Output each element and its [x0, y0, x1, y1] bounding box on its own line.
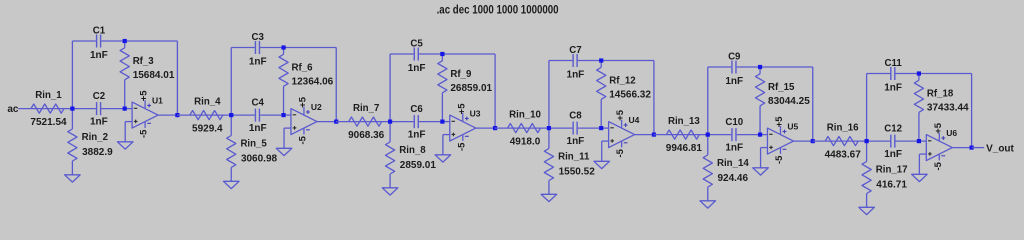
node B junction	[917, 139, 921, 143]
svg-text:Rin_11: Rin_11	[558, 152, 590, 163]
wire: output riser	[176, 41, 178, 115]
node B junction	[440, 120, 444, 124]
wire: node A to cap	[708, 134, 732, 136]
capacitor C9	[731, 61, 733, 74]
svg-text:1nF: 1nF	[90, 50, 108, 61]
resistor Rin_8 (body)	[385, 142, 394, 174]
node A junction	[229, 113, 233, 117]
opamp minus input mark	[610, 127, 614, 129]
resistor Rf_6 (body)	[279, 54, 288, 86]
wire: Rf top lead	[759, 67, 761, 74]
output junction	[493, 126, 497, 130]
V- mark	[624, 142, 628, 144]
ground under Rin_11	[541, 194, 557, 201]
ground at U1 plus input	[117, 142, 133, 149]
svg-text:ac: ac	[7, 104, 19, 115]
svg-text:+5: +5	[933, 122, 944, 134]
svg-text:+5: +5	[297, 96, 308, 108]
svg-text:Rin_10: Rin_10	[509, 110, 541, 121]
top feedback junction	[281, 45, 285, 49]
svg-text:V_out: V_out	[986, 144, 1014, 155]
opamp minus input mark	[134, 107, 138, 109]
V+ power pin stub	[303, 107, 305, 115]
V- power pin stub	[938, 154, 940, 160]
svg-text:1nF: 1nF	[249, 56, 267, 67]
wire: input to node A	[177, 114, 231, 116]
svg-text:U1: U1	[152, 96, 163, 106]
svg-text:U3: U3	[470, 109, 481, 119]
wire: opamp output	[158, 114, 177, 116]
wire: output to V_out	[972, 147, 985, 149]
wire: node A riser to top feedback	[866, 74, 868, 142]
svg-text:-5: -5	[456, 142, 467, 151]
svg-text:1nF: 1nF	[408, 63, 426, 74]
resistor Rf_18 (body)	[914, 80, 923, 112]
svg-text:-5: -5	[139, 129, 150, 138]
wire: top feedback left segment	[549, 60, 573, 62]
wire: Rg top lead	[230, 115, 232, 135]
opamp plus input mark	[610, 140, 614, 142]
wire: plus input to ground	[919, 153, 926, 155]
wire: node B to opamp inverting input	[601, 127, 608, 129]
svg-text:Rin_2: Rin_2	[82, 132, 108, 143]
wire: node A to cap	[231, 114, 255, 116]
wire: opamp output	[635, 134, 654, 136]
wire: node B to opamp inverting input	[125, 108, 132, 110]
svg-text:+5: +5	[456, 103, 467, 115]
op-amp U6	[926, 135, 952, 161]
ground at U2 plus input	[276, 148, 292, 155]
svg-text:Rin_17: Rin_17	[876, 165, 908, 176]
capacitor C3	[254, 41, 256, 54]
wire: Rg top lead	[548, 128, 550, 148]
resistor Rin_14 (body)	[703, 155, 712, 187]
resistor Rin_16	[825, 137, 858, 146]
wire: output riser	[335, 48, 337, 122]
svg-text:1nF: 1nF	[884, 82, 902, 93]
svg-text:U5: U5	[787, 122, 798, 132]
wire: output riser	[494, 54, 496, 128]
svg-text:1550.52: 1550.52	[559, 167, 596, 178]
svg-text:Rf_18: Rf_18	[927, 88, 954, 99]
svg-text:C2: C2	[93, 91, 105, 102]
node A junction	[547, 126, 551, 130]
svg-text:Rf_6: Rf_6	[292, 62, 314, 73]
wire: Rg top lead	[389, 122, 391, 142]
top feedback junction	[123, 39, 127, 43]
ground under Rin_2	[65, 175, 81, 182]
wire: input to node A	[812, 140, 866, 142]
resistor Rin_7	[349, 117, 382, 126]
svg-text:+5: +5	[774, 116, 785, 128]
svg-text:C7: C7	[569, 45, 581, 56]
svg-text:3882.9: 3882.9	[82, 147, 113, 158]
wire: Rg top lead	[866, 141, 868, 161]
wire: node A riser to top feedback	[389, 54, 391, 122]
wire: Rf top lead	[918, 74, 920, 81]
V+ mark	[306, 111, 310, 113]
op-amp U3	[450, 115, 476, 141]
svg-text:83044.25: 83044.25	[768, 96, 810, 107]
ground at U6 plus input	[912, 174, 928, 181]
wire: Rf bottom lead	[283, 86, 285, 115]
svg-text:C3: C3	[252, 32, 265, 43]
wire: Rf top lead	[441, 54, 443, 61]
wire: node A to cap	[390, 121, 414, 123]
node A junction	[865, 139, 869, 143]
V+ power pin stub	[621, 120, 623, 128]
V- mark	[783, 148, 787, 150]
capacitor C11	[890, 67, 892, 80]
opamp plus input mark	[452, 133, 456, 135]
node B junction	[281, 113, 285, 117]
wire: input to node A	[18, 108, 72, 110]
wire: output riser	[812, 67, 814, 141]
wire: output riser	[653, 61, 655, 135]
wire: Rf bottom lead	[918, 112, 920, 141]
resistor Rin_4	[190, 111, 223, 120]
top feedback junction	[599, 58, 603, 62]
opamp plus input mark	[769, 146, 773, 148]
wire: node A to cap	[867, 140, 891, 142]
ground at U4 plus input	[594, 161, 610, 168]
wire: node A riser to top feedback	[230, 48, 232, 116]
V- mark	[306, 129, 310, 131]
top feedback junction	[758, 65, 762, 69]
V- power pin stub	[144, 122, 146, 128]
ground under Rin_17	[859, 207, 875, 214]
wire: opamp output	[317, 121, 336, 123]
wire: node B to opamp inverting input	[760, 134, 767, 136]
wire: Rg top lead	[707, 135, 709, 155]
wire: input to node A	[336, 121, 390, 123]
capacitor C7	[572, 54, 574, 67]
resistor Rf_12 (body)	[597, 67, 606, 99]
capacitor C1	[96, 35, 98, 48]
svg-text:3060.98: 3060.98	[241, 154, 278, 165]
node A junction	[388, 120, 392, 124]
svg-text:+5: +5	[139, 90, 150, 102]
wire: node A riser to top feedback	[71, 41, 73, 109]
V- power pin stub	[462, 135, 464, 141]
svg-text:C11: C11	[884, 58, 902, 69]
svg-text:-5: -5	[297, 135, 308, 144]
V+ mark	[941, 137, 945, 139]
ground under Rin_14	[700, 201, 716, 208]
V+ power pin stub	[779, 126, 781, 134]
wire: node B to opamp inverting input	[919, 140, 926, 142]
wire: top feedback left segment	[231, 47, 255, 49]
resistor Rin_17 (body)	[862, 162, 871, 194]
svg-text:26859.01: 26859.01	[450, 83, 492, 94]
svg-text:Rin_4: Rin_4	[194, 97, 221, 108]
capacitor C8	[572, 122, 574, 135]
wire: top feedback right segment	[578, 60, 654, 62]
node A junction	[70, 107, 74, 111]
wire: output riser	[971, 74, 973, 148]
svg-text:Rin_13: Rin_13	[668, 116, 700, 127]
svg-text:12364.06: 12364.06	[292, 77, 334, 88]
V+ power pin stub	[938, 133, 940, 141]
svg-text:1nF: 1nF	[567, 69, 585, 80]
resistor Rin_10	[508, 124, 541, 133]
svg-text:-5: -5	[615, 148, 626, 157]
resistor Rin_2 (body)	[68, 129, 77, 161]
wire: cap to node B	[896, 140, 919, 142]
V+ mark	[624, 124, 628, 126]
resistor Rf_9 (body)	[438, 61, 447, 93]
svg-text:U6: U6	[946, 128, 957, 138]
output junction	[334, 120, 338, 124]
wire: opamp output	[476, 127, 495, 129]
ground at U3 plus input	[435, 155, 451, 162]
wire: Rf top lead	[283, 48, 285, 55]
svg-text:C12: C12	[884, 124, 902, 135]
svg-text:C10: C10	[725, 117, 743, 128]
V- mark	[465, 135, 469, 137]
wire: input to node A	[654, 134, 708, 136]
wire: plus input to ground	[602, 140, 609, 142]
svg-text:-5: -5	[933, 161, 944, 170]
svg-text:1nF: 1nF	[725, 143, 743, 154]
wire: top feedback left segment	[708, 66, 732, 68]
V+ mark	[783, 131, 787, 133]
op-amp U5	[767, 128, 793, 154]
svg-text:C4: C4	[252, 98, 265, 109]
resistor Rin_13	[666, 130, 699, 139]
V+ power pin stub	[144, 100, 146, 108]
svg-text:Rf_12: Rf_12	[609, 75, 635, 86]
opamp minus input mark	[928, 140, 932, 142]
resistor Rf_15 (body)	[755, 74, 764, 106]
V- power pin stub	[621, 141, 623, 147]
wire: top feedback left segment	[72, 40, 96, 42]
node B junction	[123, 107, 127, 111]
wire: top feedback right segment	[260, 47, 336, 49]
svg-text:+5: +5	[615, 109, 626, 121]
wire: plus input to ground	[284, 127, 291, 129]
svg-text:2859.01: 2859.01	[400, 160, 437, 171]
V+ power pin stub	[462, 113, 464, 121]
opamp minus input mark	[451, 120, 455, 122]
svg-text:1nF: 1nF	[90, 117, 108, 128]
wire: node B to opamp inverting input	[442, 121, 449, 123]
svg-text:1nF: 1nF	[725, 76, 743, 87]
wire: opamp output	[793, 140, 812, 142]
capacitor C4	[254, 109, 256, 122]
svg-text:C1: C1	[93, 26, 106, 37]
capacitor C5	[413, 48, 415, 61]
wire: Rf bottom lead	[600, 99, 602, 128]
wire: node B to opamp inverting input	[284, 114, 291, 116]
svg-text:7521.54: 7521.54	[30, 117, 67, 128]
output junction	[811, 139, 815, 143]
capacitor C12	[890, 135, 892, 148]
svg-text:37433.44: 37433.44	[927, 103, 969, 114]
V- power pin stub	[303, 128, 305, 134]
wire: cap to node B	[578, 127, 601, 129]
svg-text:4483.67: 4483.67	[825, 149, 862, 160]
opamp minus input mark	[293, 114, 297, 116]
V- mark	[147, 122, 151, 124]
ground at U5 plus input	[753, 168, 769, 175]
wire: top feedback left segment	[867, 73, 891, 75]
svg-text:1nF: 1nF	[567, 136, 585, 147]
V- mark	[941, 155, 945, 157]
V- power pin stub	[779, 148, 781, 154]
svg-text:.ac dec 1000 1000 1000000: .ac dec 1000 1000 1000000	[437, 5, 559, 17]
svg-text:Rin_1: Rin_1	[35, 90, 62, 101]
svg-text:924.46: 924.46	[717, 173, 748, 184]
svg-text:Rf_9: Rf_9	[450, 69, 472, 80]
V+ mark	[147, 105, 151, 107]
svg-text:C9: C9	[728, 52, 741, 63]
node B junction	[758, 133, 762, 137]
svg-text:C8: C8	[569, 111, 582, 122]
wire: Rf bottom lead	[759, 106, 761, 135]
opamp plus input mark	[293, 127, 297, 129]
svg-text:Rin_7: Rin_7	[353, 103, 379, 114]
wire: Rf bottom lead	[124, 80, 126, 109]
wire: node A to cap	[72, 108, 96, 110]
svg-text:416.71: 416.71	[876, 180, 907, 191]
wire: top feedback left segment	[390, 53, 414, 55]
opamp plus input mark	[928, 153, 932, 155]
svg-text:9068.36: 9068.36	[348, 130, 385, 141]
node B junction	[599, 126, 603, 130]
wire: plus input to ground	[443, 134, 450, 136]
svg-text:Rf_15: Rf_15	[768, 82, 795, 93]
wire: top feedback right segment	[419, 53, 495, 55]
svg-text:C5: C5	[410, 39, 423, 50]
output junction	[175, 113, 179, 117]
wire: Rg bottom lead	[71, 161, 73, 175]
resistor Rin_5 (body)	[227, 136, 236, 168]
svg-text:Rin_5: Rin_5	[240, 139, 267, 150]
opamp minus input mark	[769, 133, 773, 135]
ground under Rin_8	[382, 188, 398, 195]
svg-text:1nF: 1nF	[884, 149, 902, 160]
op-amp U1	[132, 102, 158, 128]
wire: node A to cap	[549, 127, 573, 129]
wire: top feedback right segment	[101, 40, 177, 42]
top feedback junction	[440, 52, 444, 56]
wire: Rg top lead	[71, 109, 73, 129]
svg-text:Rf_3: Rf_3	[133, 56, 155, 67]
wire: Rf top lead	[124, 41, 126, 48]
svg-text:1nF: 1nF	[249, 123, 267, 134]
wire: node A riser to top feedback	[548, 61, 550, 129]
wire: cap to node B	[260, 114, 283, 116]
wire: plus input to ground	[125, 121, 132, 123]
wire: Rg bottom lead	[707, 187, 709, 201]
svg-text:U4: U4	[629, 115, 640, 125]
capacitor C10	[731, 128, 733, 141]
capacitor C6	[413, 115, 415, 128]
svg-text:14566.32: 14566.32	[609, 90, 651, 101]
svg-text:Rin_16: Rin_16	[827, 123, 859, 134]
wire: Rg bottom lead	[866, 194, 868, 208]
wire: plus input to ground	[761, 147, 768, 149]
wire: cap to node B	[419, 121, 442, 123]
wire: node A riser to top feedback	[707, 67, 709, 135]
svg-text:C6: C6	[410, 104, 423, 115]
svg-text:Rin_14: Rin_14	[717, 158, 749, 169]
svg-text:9946.81: 9946.81	[666, 143, 703, 154]
op-amp U4	[609, 122, 635, 148]
wire: input to node A	[495, 127, 549, 129]
wire: Rg bottom lead	[548, 181, 550, 195]
output junction	[652, 133, 656, 137]
svg-text:-5: -5	[774, 155, 785, 164]
svg-text:U2: U2	[311, 102, 322, 112]
top feedback junction	[917, 71, 921, 75]
resistor Rin_1	[31, 104, 64, 113]
svg-text:15684.01: 15684.01	[133, 70, 175, 81]
wire: top feedback right segment	[737, 66, 813, 68]
svg-text:5929.4: 5929.4	[192, 123, 223, 134]
V+ mark	[465, 118, 469, 120]
wire: Rg bottom lead	[230, 168, 232, 182]
wire: Rf top lead	[600, 61, 602, 68]
resistor Rf_3 (body)	[120, 48, 129, 80]
wire: cap to node B	[737, 134, 760, 136]
svg-text:4918.0: 4918.0	[510, 136, 541, 147]
output junction	[970, 146, 974, 150]
opamp plus input mark	[134, 120, 138, 122]
op-amp U2	[291, 109, 317, 135]
wire: top feedback right segment	[896, 73, 972, 75]
wire: cap to node B	[101, 108, 124, 110]
svg-text:1nF: 1nF	[408, 130, 426, 141]
node A junction	[706, 133, 710, 137]
resistor Rin_11 (body)	[544, 149, 553, 181]
svg-text:Rin_8: Rin_8	[399, 145, 426, 156]
ground under Rin_5	[223, 181, 239, 188]
wire: Rg bottom lead	[389, 174, 391, 188]
capacitor C2	[96, 102, 98, 115]
wire: Rf bottom lead	[441, 93, 443, 122]
wire: opamp output	[952, 147, 971, 149]
